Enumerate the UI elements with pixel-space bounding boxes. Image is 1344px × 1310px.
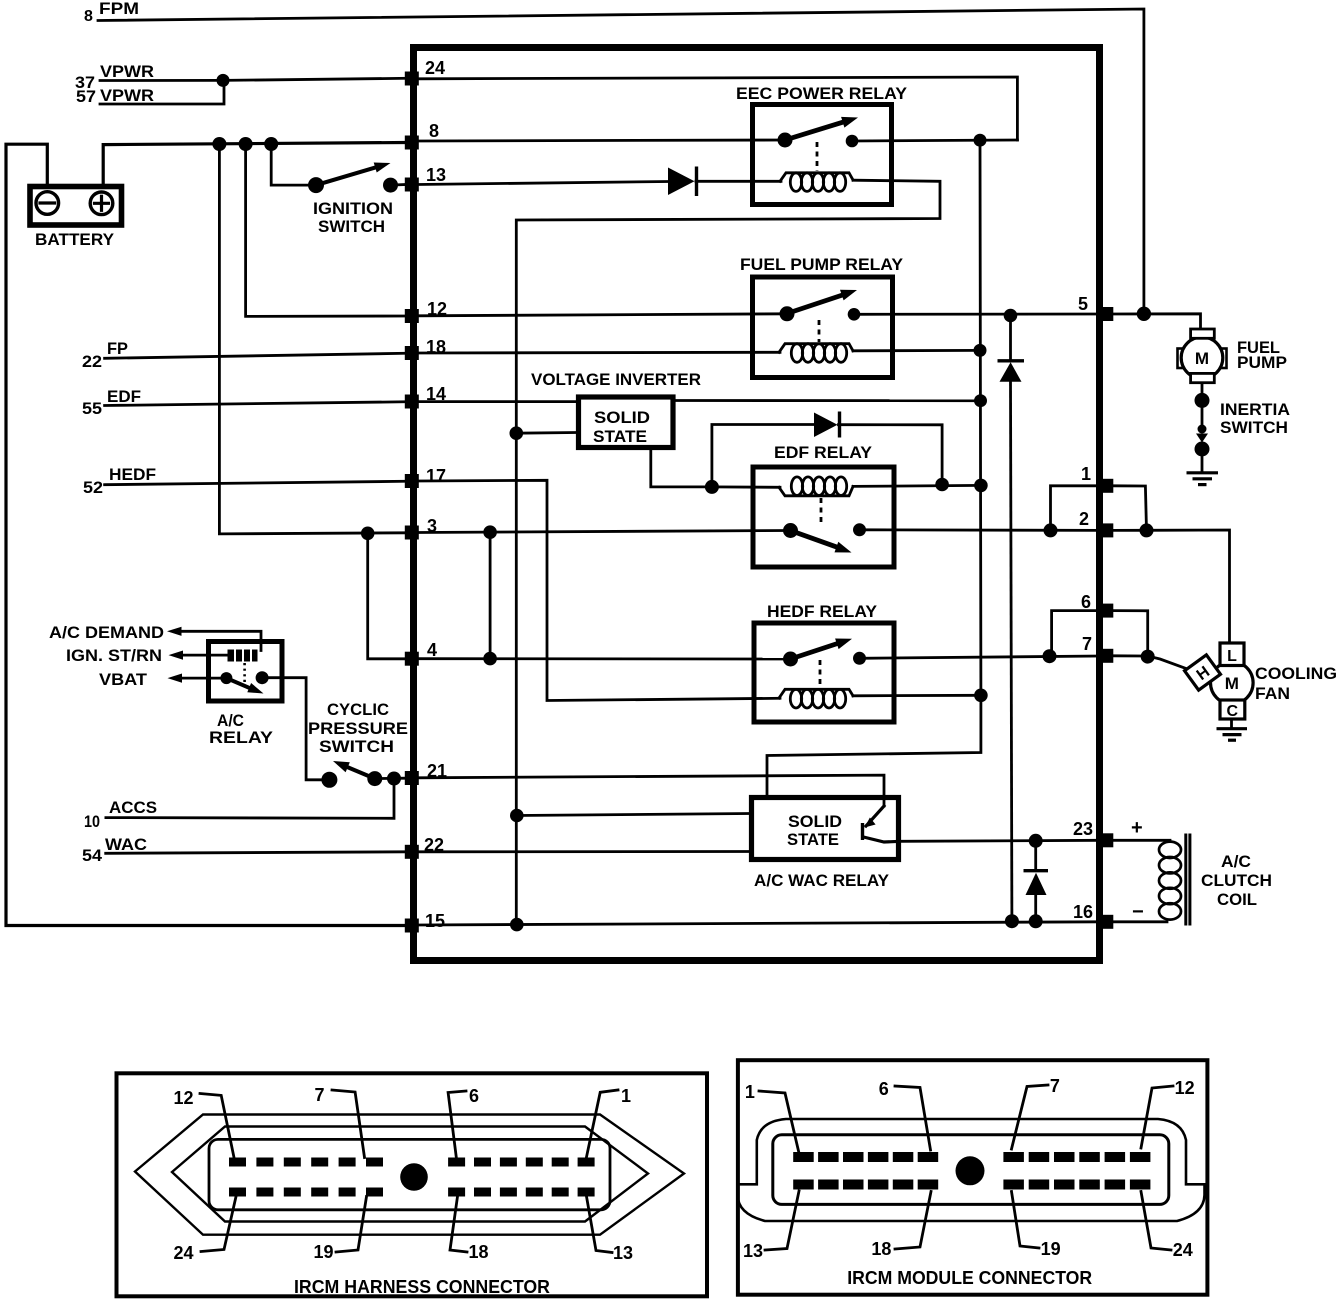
svg-text:1: 1	[745, 1082, 755, 1102]
svg-text:VPWR: VPWR	[100, 86, 154, 105]
svg-text:52: 52	[83, 478, 103, 497]
svg-text:HEDF: HEDF	[109, 465, 156, 484]
svg-text:7: 7	[1082, 634, 1092, 654]
svg-text:A/C DEMAND: A/C DEMAND	[49, 623, 164, 642]
svg-text:VBAT: VBAT	[99, 670, 148, 689]
svg-text:24: 24	[425, 58, 445, 78]
svg-text:57: 57	[76, 87, 96, 106]
svg-text:−: −	[1132, 901, 1144, 923]
svg-text:FUEL PUMP RELAY: FUEL PUMP RELAY	[740, 255, 904, 274]
svg-text:VPWR: VPWR	[100, 62, 154, 81]
svg-text:+: +	[1131, 817, 1143, 839]
svg-text:SWITCH: SWITCH	[319, 737, 394, 756]
svg-text:6: 6	[879, 1079, 889, 1099]
svg-text:COOLING: COOLING	[1255, 664, 1337, 683]
svg-text:13: 13	[426, 165, 446, 185]
svg-text:CYCLIC: CYCLIC	[327, 700, 389, 719]
svg-text:WAC: WAC	[105, 835, 147, 854]
svg-text:STATE: STATE	[593, 427, 647, 446]
svg-text:A/C WAC RELAY: A/C WAC RELAY	[754, 871, 890, 890]
svg-text:19: 19	[314, 1242, 334, 1262]
svg-text:EDF RELAY: EDF RELAY	[774, 443, 873, 462]
svg-text:ACCS: ACCS	[109, 798, 157, 817]
svg-text:54: 54	[82, 846, 103, 865]
svg-text:BATTERY: BATTERY	[35, 230, 115, 249]
svg-text:8: 8	[84, 8, 93, 25]
svg-text:HEDF RELAY: HEDF RELAY	[767, 602, 878, 621]
svg-text:IGNITION: IGNITION	[313, 199, 393, 218]
svg-text:M: M	[1225, 674, 1239, 693]
svg-text:SOLID: SOLID	[594, 408, 650, 427]
svg-text:IRCM HARNESS CONNECTOR: IRCM HARNESS CONNECTOR	[294, 1277, 550, 1297]
svg-text:FP: FP	[107, 339, 128, 358]
svg-text:EDF: EDF	[107, 387, 141, 406]
svg-text:STATE: STATE	[787, 830, 839, 849]
svg-text:6: 6	[1081, 592, 1091, 612]
svg-text:14: 14	[426, 384, 446, 404]
svg-text:3: 3	[427, 516, 437, 536]
svg-text:24: 24	[1173, 1240, 1193, 1260]
svg-text:L: L	[1227, 648, 1237, 665]
svg-text:1: 1	[621, 1086, 631, 1106]
svg-text:FAN: FAN	[1255, 684, 1290, 703]
svg-text:6: 6	[469, 1086, 479, 1106]
svg-text:EEC POWER RELAY: EEC POWER RELAY	[736, 84, 908, 103]
svg-text:12: 12	[174, 1088, 194, 1108]
svg-text:12: 12	[1175, 1078, 1195, 1098]
svg-text:A/C: A/C	[1221, 852, 1251, 871]
svg-text:IGN. ST/RN: IGN. ST/RN	[66, 646, 162, 665]
svg-text:M: M	[1195, 349, 1209, 368]
svg-text:SWITCH: SWITCH	[318, 217, 385, 236]
svg-text:C: C	[1227, 703, 1239, 720]
svg-text:PUMP: PUMP	[1237, 353, 1287, 372]
svg-text:24: 24	[174, 1243, 194, 1263]
svg-text:4: 4	[427, 640, 437, 660]
svg-text:13: 13	[743, 1241, 763, 1261]
svg-text:18: 18	[871, 1239, 891, 1259]
svg-text:7: 7	[315, 1085, 325, 1105]
svg-text:SOLID: SOLID	[788, 812, 842, 831]
svg-text:RELAY: RELAY	[209, 728, 274, 747]
svg-text:21: 21	[427, 761, 447, 781]
svg-text:17: 17	[426, 466, 446, 486]
svg-text:VOLTAGE INVERTER: VOLTAGE INVERTER	[531, 370, 701, 389]
svg-text:12: 12	[427, 299, 447, 319]
svg-text:7: 7	[1050, 1076, 1060, 1096]
svg-text:10: 10	[84, 812, 100, 831]
svg-text:15: 15	[425, 911, 445, 931]
svg-text:CLUTCH: CLUTCH	[1201, 871, 1272, 890]
svg-text:13: 13	[613, 1243, 633, 1263]
svg-text:22: 22	[82, 352, 102, 371]
svg-text:19: 19	[1041, 1239, 1061, 1259]
svg-text:23: 23	[1073, 819, 1093, 839]
svg-text:18: 18	[469, 1242, 489, 1262]
svg-text:5: 5	[1078, 294, 1088, 314]
svg-text:PRESSURE: PRESSURE	[308, 719, 408, 738]
svg-text:16: 16	[1073, 902, 1093, 922]
svg-text:SWITCH: SWITCH	[1220, 418, 1288, 437]
svg-text:FPM: FPM	[99, 0, 139, 18]
svg-text:55: 55	[82, 399, 102, 418]
svg-text:COIL: COIL	[1217, 890, 1257, 909]
svg-text:22: 22	[424, 835, 444, 855]
svg-text:8: 8	[429, 121, 439, 141]
svg-text:1: 1	[1081, 464, 1091, 484]
svg-text:2: 2	[1079, 509, 1089, 529]
svg-text:IRCM MODULE CONNECTOR: IRCM MODULE CONNECTOR	[847, 1268, 1092, 1288]
svg-text:INERTIA: INERTIA	[1220, 400, 1290, 419]
svg-text:18: 18	[426, 337, 446, 357]
